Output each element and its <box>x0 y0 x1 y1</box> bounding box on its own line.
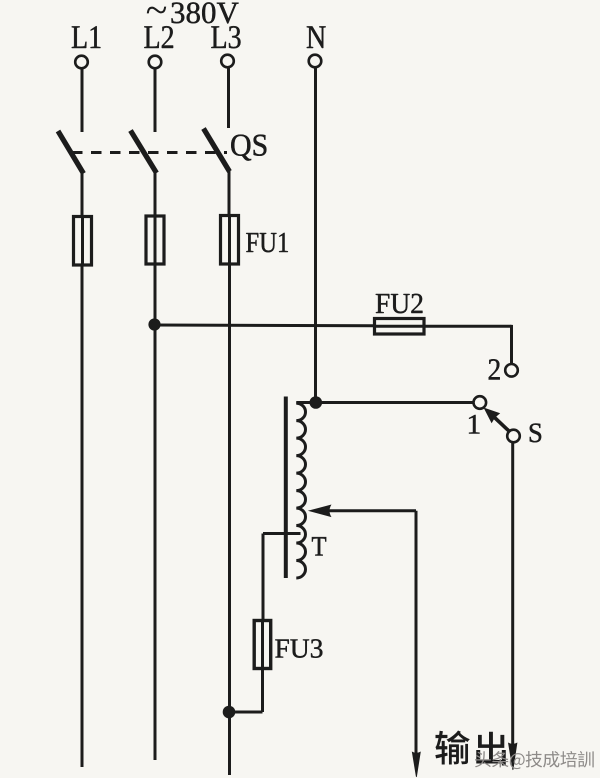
label output 输出 <box>435 730 469 764</box>
label 2 <box>489 359 500 379</box>
wire junction horizontal <box>229 711 263 714</box>
output arrowhead left <box>412 752 421 778</box>
terminal L3 <box>221 55 234 68</box>
terminal N <box>309 55 322 68</box>
fuse FU3 <box>254 621 271 669</box>
wire QS3 to FU1c <box>228 171 231 216</box>
contact terminal 2 <box>505 364 518 377</box>
wire lower tap horizontal <box>263 532 301 535</box>
node junction N/winding <box>311 398 321 408</box>
wire L3 feeder to bottom <box>228 264 231 775</box>
wire QS1 to FU1a <box>81 173 84 217</box>
label N <box>307 26 326 48</box>
terminal L2 <box>149 56 162 69</box>
label L1 <box>72 26 87 48</box>
switch S common terminal <box>507 430 520 443</box>
output arrowhead right <box>508 743 517 771</box>
label 1 <box>469 415 479 433</box>
wire L3 to QS <box>227 68 230 129</box>
label L3 <box>211 26 226 48</box>
fuse FU1 pole 2 <box>146 216 164 264</box>
switch S blade <box>494 417 510 432</box>
label T <box>312 537 326 555</box>
label FU3 <box>275 639 289 657</box>
switch QS pole 2 blade <box>131 131 157 174</box>
transformer T core <box>284 397 288 579</box>
label QS <box>231 135 251 161</box>
contact terminal 1 <box>474 396 487 409</box>
node junction L2/FU2 branch <box>150 320 159 329</box>
switch QS pole 3 blade <box>204 129 230 172</box>
wire L2 to QS <box>154 69 157 133</box>
wire L2 junction to FU2 <box>155 324 375 328</box>
terminal L1 <box>75 56 88 69</box>
wire lower tap down to FU3 <box>262 534 265 622</box>
QS linkage dashed line <box>72 151 227 154</box>
wire L1 to QS <box>81 69 84 133</box>
fuse FU1 pole 3 <box>221 216 239 265</box>
wire FU2 to corner <box>424 325 512 328</box>
wire L1 feeder to bottom <box>81 265 84 767</box>
node junction L3/FU3 <box>224 707 234 717</box>
wire tap corner down to output <box>415 511 418 753</box>
label FU1 <box>246 233 258 252</box>
label FU2 <box>376 294 390 313</box>
wire N vertical <box>314 68 317 403</box>
label L2 <box>144 26 159 48</box>
transformer T winding <box>296 403 305 578</box>
wire S down to output <box>511 442 514 744</box>
wire L2 feeder to bottom <box>154 264 157 760</box>
wire corner down to contact 2 <box>510 325 513 364</box>
fuse FU2 <box>375 319 425 335</box>
switch S blade arrowhead <box>484 408 501 424</box>
label ~380V <box>147 7 166 14</box>
tap arrow into winding <box>324 509 416 512</box>
switch QS pole 1 blade <box>58 131 84 174</box>
fuse FU1 pole 1 <box>74 217 92 266</box>
label S <box>530 423 541 442</box>
wire winding top to contact 1 <box>296 401 473 404</box>
watermark 头条@技成培训 <box>475 751 491 767</box>
wire QS2 to FU1b <box>154 173 157 217</box>
wire FU3 to junction <box>261 669 264 713</box>
